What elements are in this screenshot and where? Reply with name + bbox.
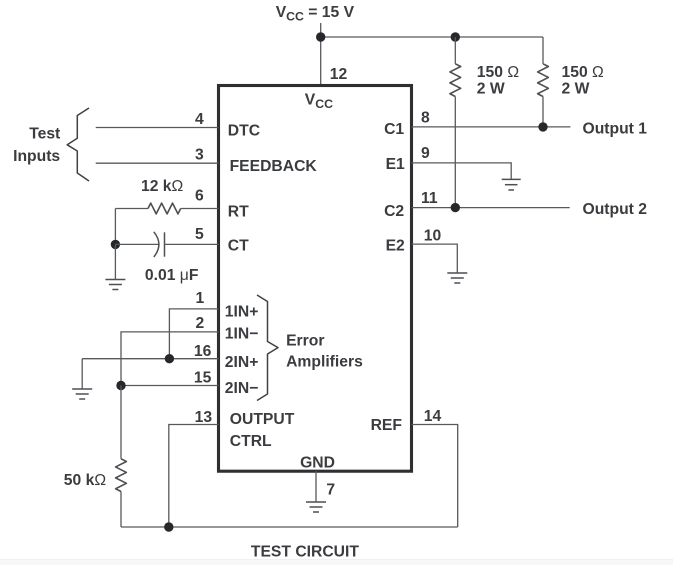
resistor 50k zigzag bbox=[116, 459, 127, 492]
node VCC at pin 12 bbox=[316, 32, 325, 41]
brace error amplifiers (right curly) bbox=[257, 295, 278, 401]
svg-text:Inputs: Inputs bbox=[13, 148, 60, 165]
svg-text:1IN−: 1IN− bbox=[225, 326, 259, 343]
svg-text:E1: E1 bbox=[386, 156, 405, 173]
wire R2 bottom lead to Output 1 node bbox=[542, 97, 544, 127]
svg-text:DTC: DTC bbox=[228, 123, 260, 140]
node VCC rail / R1 top bbox=[451, 32, 460, 41]
node pin1/pin16 junction bbox=[165, 354, 174, 363]
wire pin 2 (1IN-) bbox=[121, 332, 219, 386]
wire pin 1 (1IN+) bbox=[169, 309, 218, 359]
svg-text:GND: GND bbox=[300, 455, 335, 472]
svg-text:8: 8 bbox=[421, 110, 430, 127]
svg-text:0.01 μF: 0.01 μF bbox=[145, 267, 199, 284]
svg-text:2 W: 2 W bbox=[477, 81, 505, 98]
label Error Amplifiers bbox=[286, 333, 363, 371]
svg-text:12 kΩ: 12 kΩ bbox=[141, 178, 184, 195]
svg-text:14: 14 bbox=[424, 408, 442, 425]
wire RT-CT vertical bbox=[114, 209, 116, 245]
wire pin 4 DTC bbox=[96, 127, 219, 129]
wire CT right segment to pin 5 bbox=[165, 243, 219, 245]
resistor R1 150 ohm zigzag bbox=[450, 64, 461, 97]
wire CT left segment bbox=[115, 243, 158, 245]
wire CT node to ground bbox=[114, 244, 116, 279]
svg-text:13: 13 bbox=[195, 409, 213, 426]
svg-text:VCC = 15 V: VCC = 15 V bbox=[276, 4, 355, 24]
svg-text:2IN−: 2IN− bbox=[225, 380, 259, 397]
ground (2IN+) bbox=[72, 389, 92, 399]
svg-text:5: 5 bbox=[195, 226, 204, 243]
wire pin 15 (2IN-) bbox=[121, 385, 219, 387]
node C2 / R1 bottom bbox=[451, 203, 460, 212]
svg-text:Test: Test bbox=[29, 126, 61, 143]
svg-text:10: 10 bbox=[424, 228, 442, 245]
svg-text:1: 1 bbox=[196, 290, 205, 307]
wire pin 11 C2 bbox=[412, 207, 570, 209]
svg-text:3: 3 bbox=[195, 146, 204, 163]
wire RT right lead to pin 6 bbox=[181, 208, 219, 210]
resistor 12k zigzag bbox=[148, 203, 181, 214]
wire pin 12 VCC vertical into IC bbox=[320, 37, 322, 86]
svg-text:9: 9 bbox=[421, 145, 430, 162]
footer strip bbox=[0, 560, 673, 565]
svg-text:6: 6 bbox=[195, 188, 204, 205]
svg-text:16: 16 bbox=[194, 343, 212, 360]
wire R2 top lead (rail corner down) bbox=[542, 37, 544, 64]
wire VCC stub (top node up) bbox=[320, 23, 322, 37]
ground (CT) bbox=[105, 280, 125, 290]
svg-text:12: 12 bbox=[330, 66, 348, 83]
svg-text:2IN+: 2IN+ bbox=[225, 354, 259, 371]
wire pin 8 C1 bbox=[412, 126, 571, 128]
wire GND pin 7 bbox=[315, 471, 317, 502]
node CT junction bbox=[111, 240, 120, 249]
svg-text:1IN+: 1IN+ bbox=[225, 304, 259, 321]
svg-text:E2: E2 bbox=[386, 237, 405, 254]
label Test Inputs bbox=[13, 126, 61, 165]
svg-text:150 Ω: 150 Ω bbox=[562, 64, 605, 81]
node bottom rail / pin 13 bbox=[164, 522, 173, 531]
wire R1 top lead bbox=[454, 37, 456, 64]
svg-text:4: 4 bbox=[195, 111, 204, 128]
svg-text:Error: Error bbox=[286, 333, 324, 350]
capacitor 0.01uF curved plate bbox=[154, 232, 159, 257]
svg-text:CT: CT bbox=[228, 238, 249, 255]
wire pin 13 OUTPUT CTRL bbox=[169, 425, 219, 528]
capacitor 0.01uF straight plate bbox=[164, 232, 166, 256]
svg-text:CTRL: CTRL bbox=[230, 433, 272, 450]
label VCC = 15 V bbox=[276, 4, 355, 24]
IC box U1 bbox=[219, 86, 412, 472]
ground (GND pin) bbox=[306, 502, 326, 512]
svg-text:OUTPUT: OUTPUT bbox=[230, 411, 295, 428]
wire pin 3 FEEDBACK bbox=[96, 162, 219, 164]
wire bottom rail bbox=[121, 526, 458, 528]
svg-text:Output 2: Output 2 bbox=[583, 201, 648, 218]
wire 50k bottom lead bbox=[120, 492, 122, 528]
label OUTPUT CTRL bbox=[230, 411, 295, 450]
wire 50k top lead bbox=[120, 386, 122, 459]
brace test inputs (left curly) bbox=[67, 108, 89, 181]
svg-text:11: 11 bbox=[421, 190, 438, 207]
svg-text:RT: RT bbox=[228, 203, 249, 220]
svg-text:VCC: VCC bbox=[305, 92, 333, 111]
ground (E1) bbox=[502, 179, 521, 190]
resistor R2 150 ohm zigzag bbox=[538, 64, 549, 97]
svg-text:7: 7 bbox=[326, 482, 335, 499]
svg-text:C1: C1 bbox=[384, 121, 404, 138]
svg-text:2 W: 2 W bbox=[562, 81, 590, 98]
svg-text:Output 1: Output 1 bbox=[583, 121, 648, 138]
svg-text:15: 15 bbox=[194, 369, 212, 386]
svg-text:Amplifiers: Amplifiers bbox=[286, 353, 363, 370]
wire pin 9 E1 bbox=[412, 163, 512, 179]
wire R1 bottom lead down to C2 node (crosses pin 9 wire) bbox=[454, 97, 456, 208]
wire pin 14 REF bbox=[412, 425, 458, 528]
svg-text:50 kΩ: 50 kΩ bbox=[64, 472, 107, 489]
svg-text:C2: C2 bbox=[384, 203, 404, 220]
wire pin 10 E2 bbox=[412, 244, 458, 272]
svg-text:150 Ω: 150 Ω bbox=[477, 64, 520, 81]
svg-text:TEST CIRCUIT: TEST CIRCUIT bbox=[251, 544, 359, 561]
svg-text:FEEDBACK: FEEDBACK bbox=[230, 158, 318, 175]
node Output 1 bbox=[538, 122, 547, 131]
wire pin16 to ground bbox=[81, 359, 83, 389]
svg-text:2: 2 bbox=[196, 315, 205, 332]
wire RT left lead bbox=[115, 208, 148, 210]
ground (E2) bbox=[447, 273, 467, 283]
wire pin 16 (2IN+) bbox=[82, 358, 218, 360]
svg-text:REF: REF bbox=[371, 417, 403, 434]
node pin2/pin15 junction bbox=[116, 381, 125, 390]
wire VCC rail horizontal bbox=[321, 36, 543, 38]
